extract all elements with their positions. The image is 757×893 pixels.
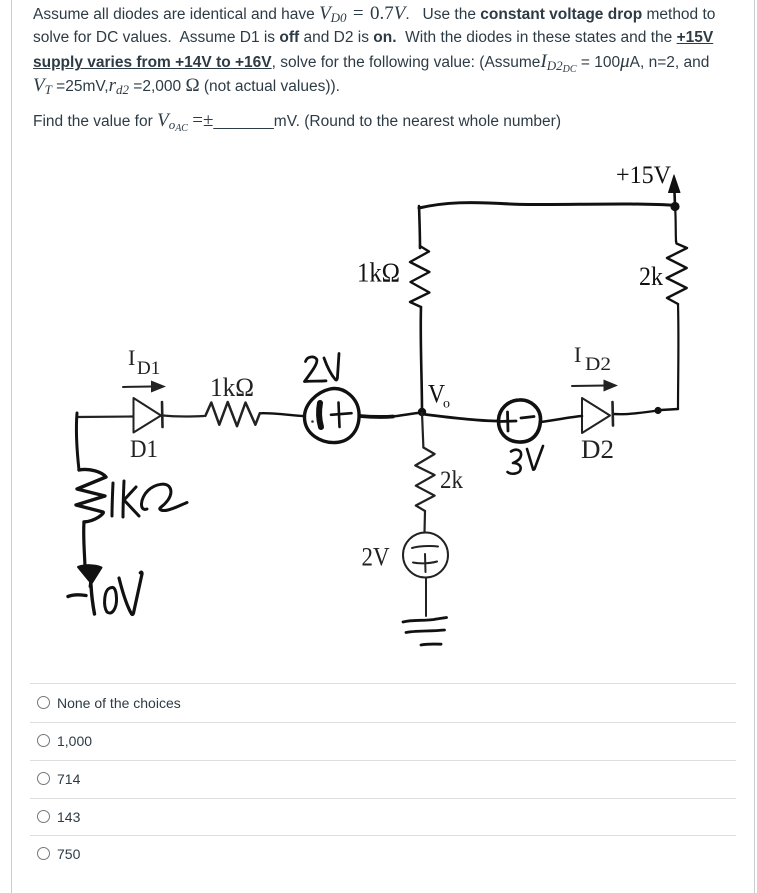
svg-text:D1: D1 xyxy=(137,358,160,379)
left page border xyxy=(11,0,12,893)
svg-text:D2: D2 xyxy=(581,435,614,464)
resistor 1k (middle horizontal) xyxy=(205,402,259,426)
wire: top-left corner down to R1 xyxy=(419,206,420,248)
svg-text:D2: D2 xyxy=(585,354,611,375)
circuit schematic xyxy=(0,0,757,680)
plus inside 2V source xyxy=(413,562,437,564)
wire: R1 bottom to node Vo xyxy=(421,307,422,411)
bold bar inside 2V source xyxy=(319,403,321,427)
svg-text:2V: 2V xyxy=(362,543,390,572)
answer: 1,000 xyxy=(0,722,757,760)
question text line 5 xyxy=(33,111,561,134)
wire: 2V source to node Vo xyxy=(360,414,394,419)
node: dot right of D2 xyxy=(654,407,661,414)
answer: 750 xyxy=(0,835,757,873)
answers divider 3 xyxy=(30,760,736,761)
label -10V (handwritten) xyxy=(68,595,86,597)
answers divider 4 xyxy=(30,798,736,799)
resistor 2k (bottom, vertical) xyxy=(415,448,434,512)
svg-text:1kΩ: 1kΩ xyxy=(357,258,400,288)
wire: top horizontal rail xyxy=(419,203,675,208)
svg-text:I: I xyxy=(128,345,135,370)
label 2V (handwritten above) xyxy=(305,357,327,382)
label 3V (handwritten) xyxy=(508,450,522,474)
diode D1 xyxy=(134,398,162,433)
answer: 143 xyxy=(0,798,757,836)
question text line 2 xyxy=(33,28,713,48)
question text line 3 xyxy=(33,52,709,75)
diode D2 xyxy=(582,398,610,433)
svg-text:+15V: +15V xyxy=(616,162,671,189)
node: top-right junction dot xyxy=(670,202,679,211)
resistor 1k (bottom-left, hand-drawn) xyxy=(76,469,106,522)
ground symbol xyxy=(403,618,447,623)
answers divider 5 xyxy=(30,835,736,836)
label 1kOhm (handwritten) xyxy=(112,483,113,516)
wire: right vertical down from 2k xyxy=(677,304,680,409)
arrow to -10V (filled head) xyxy=(78,565,102,583)
arrow ID2 xyxy=(572,385,606,388)
wire: left stub to D1 anode xyxy=(77,415,133,418)
wire: 2k to 2V source xyxy=(423,511,426,533)
svg-text:I: I xyxy=(574,342,581,367)
wire: horizontal 1k resistor to 2V source xyxy=(260,413,304,416)
wire: node Vo to 3V source xyxy=(422,414,498,421)
wire: 2V source to ground xyxy=(425,578,427,616)
wire: D1 cathode to 1k resistor xyxy=(163,416,204,417)
wire: bottom-right corner to D2 cathode xyxy=(614,409,678,414)
arrow ID1 xyxy=(123,386,152,389)
node Vo dot xyxy=(418,408,426,416)
resistor 1k (upper left, vertical) xyxy=(410,246,429,307)
source 3V (hand-drawn circle) xyxy=(498,400,540,442)
question text line 4 xyxy=(33,76,340,97)
svg-text:2k: 2k xyxy=(639,262,663,291)
svg-text:D1: D1 xyxy=(130,436,158,463)
answers divider 2 xyxy=(30,722,736,723)
source 2V AC (hand-drawn circle) xyxy=(304,389,359,443)
svg-text:2k: 2k xyxy=(440,467,463,494)
wire: 3V source to D2 anode xyxy=(541,416,582,422)
question text line 1 xyxy=(33,4,715,25)
wire: left stub vertical xyxy=(76,413,79,470)
answer: 714 xyxy=(0,760,757,798)
svg-text:1kΩ: 1kΩ xyxy=(210,373,254,402)
answers divider 1 xyxy=(30,683,736,684)
plus inside 2V source xyxy=(331,413,352,415)
source 2V DC (circle) xyxy=(403,533,448,578)
resistor 2k (right, vertical) xyxy=(667,241,687,304)
svg-text:o: o xyxy=(443,397,450,412)
wire: resistor to -10V arrow xyxy=(84,522,85,567)
+15V supply arrow xyxy=(673,192,676,206)
wire: top node down to 2k resistor (right) xyxy=(675,206,676,241)
wire: node Vo down to 2k xyxy=(422,413,423,448)
answer: None of the choices xyxy=(0,684,757,722)
right page border xyxy=(754,0,755,893)
minus inside 2V source xyxy=(412,546,438,548)
pen speck in 2V source xyxy=(311,420,314,423)
